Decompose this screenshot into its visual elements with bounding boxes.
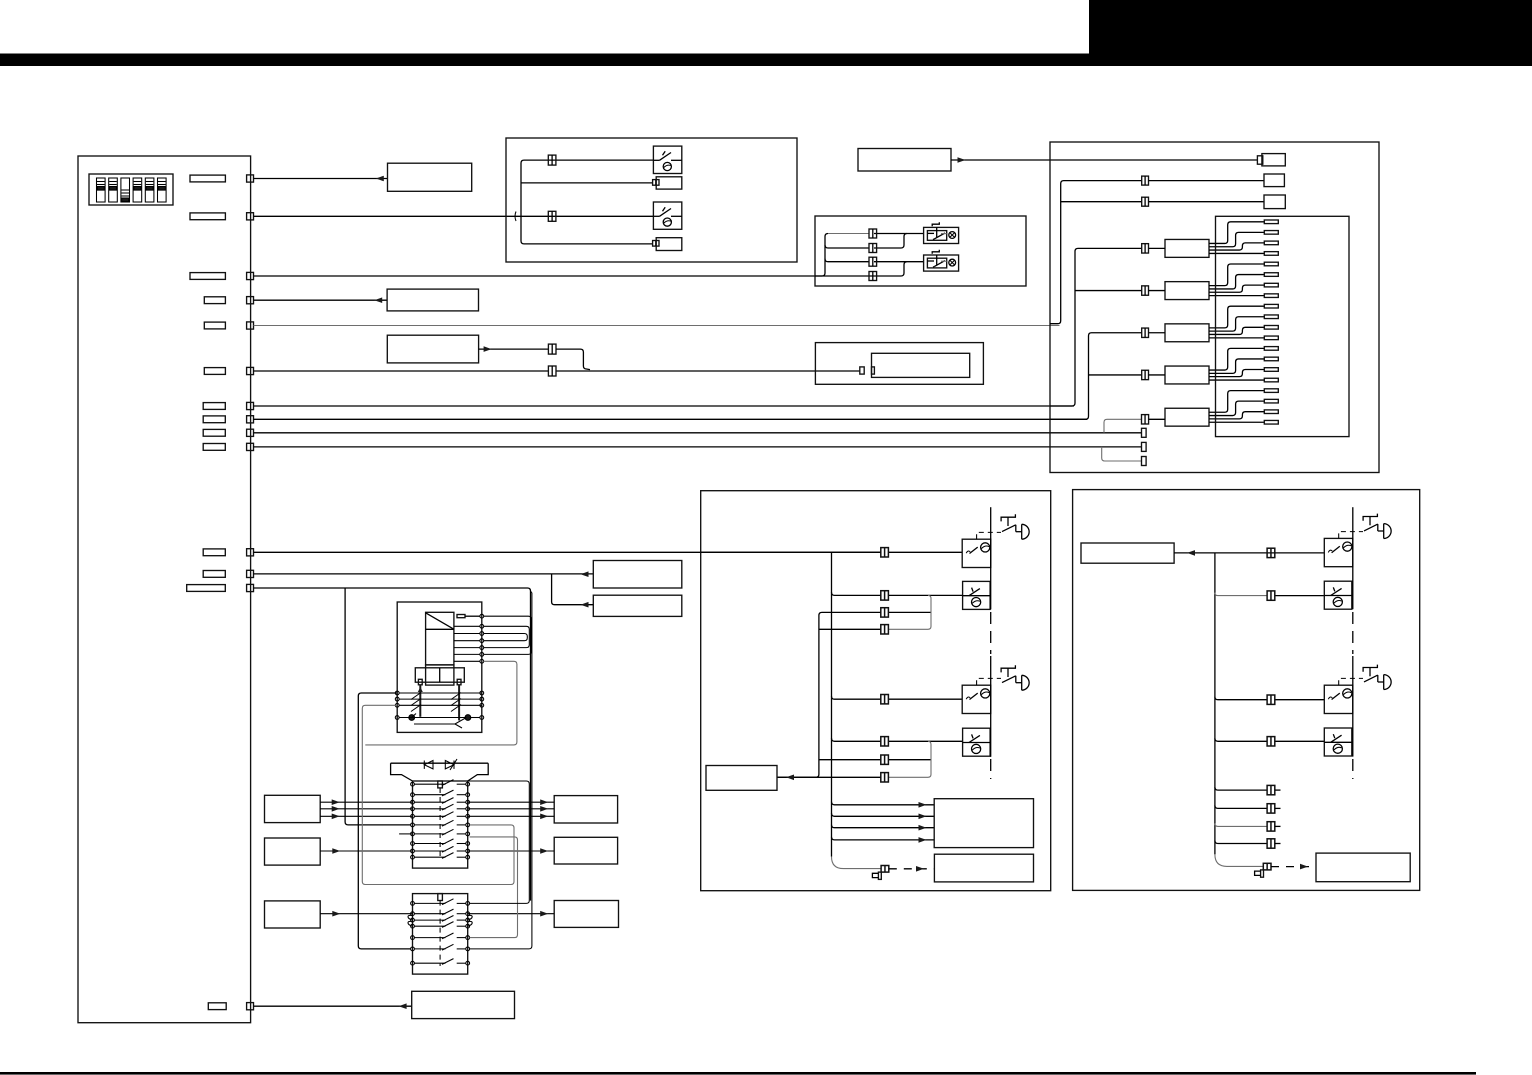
lamp unit LR4 [1324, 728, 1352, 756]
relay bus [815, 234, 828, 277]
connector CNM6 [881, 737, 889, 746]
wire stack1 top ext [468, 781, 530, 903]
edge connector r371 [247, 367, 254, 374]
connector CNR2 [1267, 591, 1275, 600]
wire lamp4 feed [888, 740, 962, 742]
edge connector r300 [247, 297, 254, 304]
relay K2 [924, 250, 959, 271]
wire L2 row [320, 850, 412, 852]
wire fan E [1209, 391, 1264, 423]
driver box B [1165, 282, 1209, 300]
PCB pin label stub r1006 [208, 1003, 226, 1010]
wire B_349 out [479, 348, 549, 350]
diode D2 [445, 759, 457, 770]
connector CN371 [548, 366, 556, 376]
connector CNRD [869, 272, 877, 281]
wire row553 [254, 551, 881, 553]
wire row3 stub [1061, 201, 1142, 203]
lamp bus right dashed [1352, 612, 1354, 654]
transformer terminals right [454, 614, 484, 663]
plug PM [872, 872, 881, 879]
lamp unit enclosure [506, 138, 797, 262]
connector CN433 [1142, 428, 1147, 437]
wire row3 to T3 [1149, 201, 1265, 203]
lower-right enclosure [1073, 490, 1420, 891]
receptacle unit LR2 [653, 177, 682, 189]
box B_bottom [412, 991, 515, 1018]
connector CNRB2 [1263, 863, 1271, 870]
wire row178 [254, 178, 388, 180]
edge connector r433 [247, 429, 254, 436]
box TR (display) [1081, 543, 1174, 563]
chime CH1 [1001, 514, 1029, 539]
edge connector r574 [247, 570, 254, 577]
lower-middle enclosure [701, 491, 1051, 891]
wire fan B [1209, 264, 1264, 296]
bus junction mark [515, 212, 516, 222]
wire TR feed [1174, 552, 1324, 554]
lamp unit LM1 [962, 539, 991, 567]
footer rule [0, 1072, 1476, 1075]
edge connector r178 [247, 175, 254, 182]
connector CNRB [869, 244, 877, 253]
wire row1 inside [701, 551, 881, 553]
contact stack CS2 [411, 894, 470, 975]
box M1 [593, 561, 682, 589]
plug PR [1255, 870, 1264, 877]
connector CNM1 [881, 548, 889, 557]
sensor enclosure [815, 343, 983, 385]
connector CN461 [1142, 457, 1147, 466]
loop vL2 [358, 693, 410, 949]
wire row588 [254, 588, 531, 901]
bus R0 row588 [470, 591, 532, 949]
wire harness C/D left [1050, 333, 1142, 420]
connector CN447 [1142, 442, 1147, 451]
connector CN_E [1142, 415, 1149, 424]
wire lamp feeds right [1275, 595, 1325, 597]
connector CNM7 [881, 755, 889, 764]
wire row433 branch to E [1104, 419, 1142, 433]
wire lamp w2 [521, 182, 653, 184]
PCB pin label stub r588 [187, 585, 226, 592]
wire relay A [874, 233, 924, 235]
connector CNS2 [1267, 804, 1275, 813]
receptacle unit LR4 [653, 238, 682, 251]
wire row2 to T2 [1149, 180, 1265, 182]
connector CNM3 [881, 608, 889, 617]
wire E feed [1149, 418, 1165, 420]
wire fan A [1209, 222, 1264, 254]
bus v0 [1050, 181, 1142, 324]
PCB pin label stub r433 [203, 429, 225, 436]
wire lamp w3 [521, 215, 653, 217]
connector CNS3 [1267, 822, 1275, 831]
wire A feed [1149, 247, 1166, 249]
connector CNM4 [881, 625, 889, 634]
box B_top2 [387, 289, 478, 311]
box T3 [1264, 195, 1285, 209]
relay enclosure [815, 216, 1026, 286]
top-right enclosure [1050, 142, 1379, 473]
edge connector r447 [247, 443, 254, 450]
lamp unit LM4 [963, 728, 991, 756]
wire row447 branch [1102, 447, 1142, 461]
title block (black) [1089, 0, 1532, 66]
wire fan C [1209, 306, 1264, 338]
connector CN369a [860, 367, 864, 374]
box B1 [934, 799, 1033, 848]
wire harness A/B left [1050, 248, 1142, 406]
chime link dashes right [1339, 532, 1363, 539]
terminal pins group C [1264, 304, 1278, 339]
wire title to CN [951, 159, 1257, 161]
PCB pin label stub r406 [203, 403, 225, 410]
lamp unit LR3 [1324, 685, 1353, 713]
wire row574 [254, 573, 594, 575]
connector CNM2 [881, 591, 889, 600]
box B_top1 [388, 163, 472, 191]
box R2 [554, 837, 617, 864]
wire row433 [254, 432, 1142, 434]
connector CNM5 [881, 695, 889, 704]
PCB pin label stub r419 [203, 416, 225, 423]
wire M2 feed [552, 574, 594, 605]
plunger right [457, 679, 461, 720]
edge connector r216 [247, 213, 254, 220]
wire row275 to relay bus [254, 275, 816, 277]
wire row419 [254, 418, 1088, 420]
box BR [1316, 853, 1410, 882]
terminal pins group B [1264, 262, 1278, 297]
connector CN_C [1142, 328, 1149, 337]
wire row300 [254, 299, 388, 301]
wire bottom row right [1215, 854, 1263, 866]
wire join x931 upper [888, 611, 931, 613]
wire join x931 lower [888, 759, 931, 761]
wire L3 row [320, 913, 412, 915]
header rule bar [0, 54, 1532, 67]
wire relay D [815, 262, 907, 276]
connector CNR1 [1267, 548, 1275, 557]
wire row447 [254, 446, 1142, 448]
box B2 [934, 854, 1033, 882]
box T2 [1264, 174, 1284, 187]
transformer contact rows [395, 691, 483, 728]
wire row324 to top-right bus [254, 325, 1060, 327]
wire lamp2 feed [888, 594, 962, 596]
wire t7 loop to row744 [365, 661, 517, 745]
terminal pins group E [1264, 389, 1278, 424]
connector CNM8 [881, 773, 889, 782]
loop vL3 [362, 705, 514, 884]
edge connector r406 [247, 402, 254, 409]
box L1 [265, 795, 321, 822]
wire row406 [254, 405, 1074, 407]
PCB pin label stub r371 [204, 368, 225, 375]
thermal fuse [457, 615, 480, 618]
connector CNR3 [1267, 695, 1275, 704]
connector CN_B [1142, 286, 1149, 295]
driver box D [1165, 366, 1209, 384]
edge connector r324 [247, 322, 254, 329]
box M2 [593, 595, 682, 616]
box L3 [265, 901, 321, 928]
connector CN_T1 [1257, 156, 1262, 164]
edge connector r419 [247, 416, 254, 423]
PCB pin label stub r447 [203, 444, 225, 451]
connector CNS4 [1267, 839, 1275, 848]
diode D1 [424, 761, 433, 769]
connector CN369b [872, 367, 875, 374]
lamp unit LM2 [963, 581, 991, 609]
wire fan to B1 [832, 802, 935, 805]
DIP switch S1 [89, 174, 173, 205]
connector CNMB [881, 866, 889, 873]
wire D feed [1149, 374, 1166, 376]
transformer enclosure [397, 602, 482, 732]
transformer core box [426, 612, 454, 665]
loop vR2 [470, 837, 518, 938]
wire C feed [1149, 332, 1166, 334]
lamp-switch unit LS1 [653, 146, 681, 173]
contact dots [409, 715, 415, 721]
diode bar [391, 763, 489, 781]
dashed wire to BR [1271, 866, 1316, 868]
lamp unit LR2 [1324, 581, 1352, 609]
dashed wire to B2 [889, 868, 935, 870]
chime CH3 [1363, 514, 1391, 539]
connector CN_T2 [1142, 176, 1149, 185]
connector CN_T3 [1142, 197, 1149, 206]
connector CNL3 [548, 211, 556, 221]
main controller PCB outline [78, 156, 251, 1023]
edge connector r588 [247, 584, 254, 591]
lamp bus solid [990, 507, 992, 609]
connector CNRA [869, 229, 877, 238]
PCB pin label stub r275 [190, 273, 225, 280]
connector CN349 [548, 344, 556, 354]
lamp bus right solid [1352, 507, 1354, 609]
terminal pins group A [1264, 220, 1278, 255]
connector CNS1 [1267, 785, 1275, 794]
wire row371 [254, 370, 549, 372]
bobbin box [415, 665, 464, 685]
stack2 hooks [408, 915, 472, 926]
edge connector r1006 [247, 1003, 254, 1010]
edge connector r275 [247, 272, 254, 279]
box B_349 [387, 335, 478, 363]
wire row216 to lamp bus [254, 215, 522, 217]
connector CNR4 [1267, 737, 1275, 746]
box B_title [858, 149, 951, 172]
box T1 [1262, 154, 1285, 166]
bus vC [1214, 553, 1216, 855]
wire relay C [874, 261, 924, 263]
box R3 [554, 901, 618, 928]
wire harness brackets [484, 616, 532, 654]
PCB pin label stub r574 [203, 571, 225, 578]
lamp unit LR1 [1324, 538, 1353, 566]
driver box A [1165, 239, 1209, 257]
inner terminal box [1216, 216, 1350, 436]
lamp bus [521, 160, 653, 216]
chime CH4 [1363, 665, 1391, 690]
PCB pin label stub r324 [204, 322, 225, 329]
wire bus vB [777, 612, 881, 777]
wire relay B [874, 234, 907, 249]
terminal pins group D [1264, 347, 1278, 382]
lamp-switch unit LS3 [653, 202, 681, 229]
wire row1006 [254, 1005, 412, 1007]
wire lamp3 feed [888, 698, 962, 700]
connector CN_A [1142, 244, 1149, 253]
connector CNL1 [548, 155, 556, 165]
relay K1 [924, 222, 959, 243]
box ML (display) [706, 766, 777, 791]
stack feeds left [399, 833, 412, 835]
sensor inner box [872, 353, 970, 377]
wire L1 rows [320, 801, 412, 803]
connector CN_D [1142, 370, 1149, 379]
loop vL1 [345, 588, 411, 825]
driver box E [1165, 408, 1209, 426]
plunger left [418, 679, 423, 717]
lamp unit LM3 [962, 685, 991, 713]
edge connector r553 [247, 549, 254, 556]
PCB pin label stub r216 [190, 213, 225, 220]
wire bus vA [831, 552, 833, 856]
box R1 [554, 796, 617, 823]
chime CH2 [1001, 665, 1029, 690]
wire bottom row [832, 857, 882, 869]
PCB pin label stub r178 [190, 175, 225, 182]
lamp bus dashed [990, 612, 992, 654]
box L2 [265, 838, 321, 865]
contact stack CS1 [411, 780, 470, 869]
driver box C [1165, 324, 1209, 342]
PCB pin label stub r300 [204, 297, 225, 304]
wire fan D [1209, 348, 1264, 380]
wire B feed [1149, 290, 1166, 292]
wire jog to row371 [556, 349, 590, 370]
chime link dashes [977, 532, 1001, 539]
PCB pin label stub r553 [203, 549, 225, 556]
connector CNRC [869, 257, 877, 266]
